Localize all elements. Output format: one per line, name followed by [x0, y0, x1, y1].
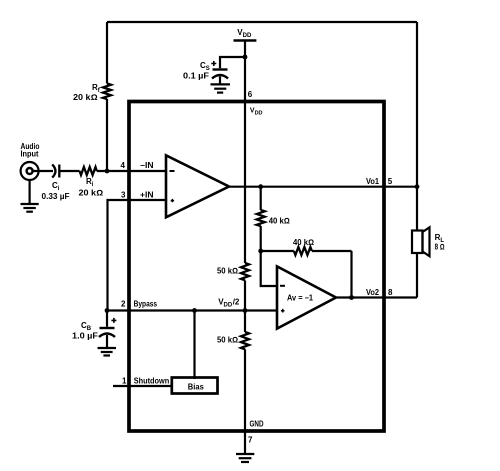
- svg-text:40 kΩ: 40 kΩ: [269, 217, 290, 226]
- wire: feedback right drop to Vo1 node: [416, 22, 418, 187]
- svg-text:1.0 µF: 1.0 µF: [72, 332, 98, 341]
- U2 plus sign: [281, 309, 285, 313]
- svg-text:2: 2: [121, 300, 126, 309]
- node: feedback Vo2 junction: [349, 295, 354, 300]
- connector J1 audio input: [21, 162, 39, 180]
- wire: junction to U2 -IN: [261, 251, 277, 286]
- svg-text:Bias: Bias: [188, 382, 205, 391]
- wire: bypass rail (pin 2 to U2 +IN): [107, 309, 277, 311]
- resistor 50k lower: [241, 332, 249, 349]
- U2 minus sign: [280, 285, 285, 287]
- svg-text:VDD/2: VDD/2: [218, 298, 240, 309]
- wire: Ci to Ri: [59, 170, 79, 172]
- CB plus sign: [111, 318, 116, 323]
- svg-text:GND: GND: [250, 420, 264, 429]
- wire: pin 7 to ground: [244, 431, 246, 454]
- ground (input): [21, 204, 39, 212]
- wire: feedback down to Vo2: [350, 251, 352, 298]
- svg-text:CB: CB: [81, 321, 92, 332]
- node: input junction: [105, 169, 110, 174]
- wire: VDD flag down to pin 6: [244, 41, 246, 103]
- capacitor CB 1.0uF: [99, 311, 115, 349]
- wire: feedback left drop into Rf: [106, 22, 108, 84]
- svg-text:−IN: −IN: [140, 161, 154, 170]
- svg-text:Input: Input: [21, 149, 39, 158]
- svg-text:20 kΩ: 20 kΩ: [73, 93, 98, 102]
- resistor Ri 20k: [80, 167, 97, 175]
- node: bias tap: [192, 308, 197, 313]
- wire: top feedback rail: [107, 21, 417, 23]
- U1 plus sign: [171, 199, 174, 202]
- svg-text:40 kΩ: 40 kΩ: [293, 238, 314, 247]
- node: bypass CB junction: [105, 308, 110, 313]
- resistor 40k vertical: [257, 187, 265, 251]
- wire: Rf to input node: [106, 99, 108, 171]
- bias block: [172, 378, 218, 394]
- wire: U2 output to Vo2 pin 8: [336, 296, 417, 298]
- wire: 50k upper to VDD/2 node: [244, 280, 246, 310]
- wire: U1 output to Vo1 pin 5: [229, 186, 417, 188]
- svg-text:CS: CS: [200, 61, 210, 72]
- wire: speaker to Vo2: [416, 253, 418, 298]
- svg-text:Vo1: Vo1: [366, 177, 380, 186]
- svg-text:4: 4: [121, 161, 126, 170]
- node: VDD/2: [243, 308, 248, 313]
- IC boundary box: [129, 102, 384, 432]
- power flag VDD top: [234, 39, 257, 42]
- svg-text:8 Ω: 8 Ω: [435, 243, 445, 252]
- resistor 40k feedback horizontal: [261, 247, 352, 255]
- U1 minus sign: [170, 170, 175, 172]
- op-amp U1: [166, 155, 229, 217]
- svg-text:8: 8: [388, 288, 393, 297]
- svg-text:5: 5: [388, 177, 393, 186]
- svg-text:50 kΩ: 50 kΩ: [217, 336, 238, 345]
- svg-text:0.33 µF: 0.33 µF: [42, 192, 70, 201]
- wire: connector to ground: [29, 180, 31, 204]
- svg-text:Ri: Ri: [86, 177, 94, 188]
- svg-text:Ci: Ci: [52, 181, 60, 192]
- node: 40k/40k junction: [258, 249, 263, 254]
- svg-text:Bypass: Bypass: [134, 300, 158, 309]
- wire: +IN bias from bypass node (pin 3): [108, 200, 167, 311]
- CS plus sign: [211, 61, 216, 66]
- svg-text:20 kΩ: 20 kΩ: [79, 189, 104, 198]
- svg-text:0.1 µF: 0.1 µF: [183, 72, 209, 81]
- resistor Rf 20k: [103, 84, 111, 99]
- capacitor CS 0.1uF: [212, 70, 228, 85]
- wire: shutdown stub (pin 1): [113, 385, 172, 387]
- wire: VDD junction to CS: [220, 57, 245, 68]
- svg-text:Shutdown: Shutdown: [134, 376, 170, 385]
- svg-text:VDD: VDD: [250, 108, 263, 117]
- node: VDD / CS junction: [243, 55, 248, 60]
- wire: Ri to -IN pin 4: [97, 170, 166, 172]
- svg-text:VDD: VDD: [237, 28, 252, 39]
- svg-text:1: 1: [122, 376, 127, 385]
- speaker RL: [412, 227, 430, 256]
- svg-text:Av = −1: Av = −1: [287, 294, 314, 303]
- wire: connector to Ci: [33, 170, 53, 172]
- svg-text:Vo2: Vo2: [366, 288, 380, 297]
- ground (CB): [98, 348, 117, 356]
- svg-text:50 kΩ: 50 kΩ: [217, 267, 238, 276]
- svg-text:7: 7: [248, 436, 253, 445]
- ground (CS): [211, 84, 231, 92]
- wire: Vo1 node down to speaker: [416, 187, 418, 231]
- svg-text:+IN: +IN: [140, 191, 154, 200]
- wire: bias tap down to Bias block: [193, 311, 195, 380]
- op-amp U2: [277, 266, 336, 328]
- node: U1 output 40k tap: [258, 184, 263, 189]
- wire: 50k lower to GND: [244, 349, 246, 431]
- capacitor Ci 0.33uF: [52, 164, 59, 177]
- node: Vo1 speaker junction: [415, 184, 420, 189]
- resistor 50k upper: [241, 263, 249, 280]
- svg-text:3: 3: [121, 191, 126, 200]
- svg-text:6: 6: [248, 90, 253, 99]
- wire: VDD/2 to 50k lower: [244, 311, 246, 333]
- wire: internal VDD rail: [244, 102, 246, 263]
- ground (main GND): [236, 454, 254, 462]
